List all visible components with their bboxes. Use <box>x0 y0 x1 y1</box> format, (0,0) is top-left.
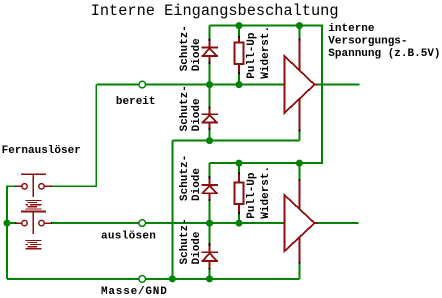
svg-text:Schutz-: Schutz- <box>179 85 191 131</box>
svg-text:Versorgungs-: Versorgungs- <box>328 35 407 47</box>
svg-text:Diode: Diode <box>191 168 203 201</box>
svg-text:Pull-Up: Pull-Up <box>246 32 258 79</box>
svg-text:Spannung (z.B.5V): Spannung (z.B.5V) <box>328 48 440 60</box>
svg-text:Widerst.: Widerst. <box>260 26 272 79</box>
svg-text:Widerst.: Widerst. <box>260 166 272 219</box>
svg-text:auslösen: auslösen <box>101 231 156 243</box>
svg-text:Pull-Up: Pull-Up <box>246 172 258 219</box>
svg-text:Diode: Diode <box>191 98 203 131</box>
svg-text:Fernauslöser: Fernauslöser <box>2 145 81 157</box>
svg-text:interne: interne <box>328 23 375 35</box>
svg-text:Diode: Diode <box>191 231 203 264</box>
svg-text:Diode: Diode <box>191 38 203 71</box>
svg-text:Schutz-: Schutz- <box>179 25 191 71</box>
svg-text:Schutz-: Schutz- <box>179 155 191 201</box>
svg-text:Schutz-: Schutz- <box>179 218 191 264</box>
svg-text:Interne Eingangsbeschaltung: Interne Eingangsbeschaltung <box>91 2 339 20</box>
svg-text:Masse/GND: Masse/GND <box>101 286 168 298</box>
svg-text:bereit: bereit <box>116 96 156 108</box>
